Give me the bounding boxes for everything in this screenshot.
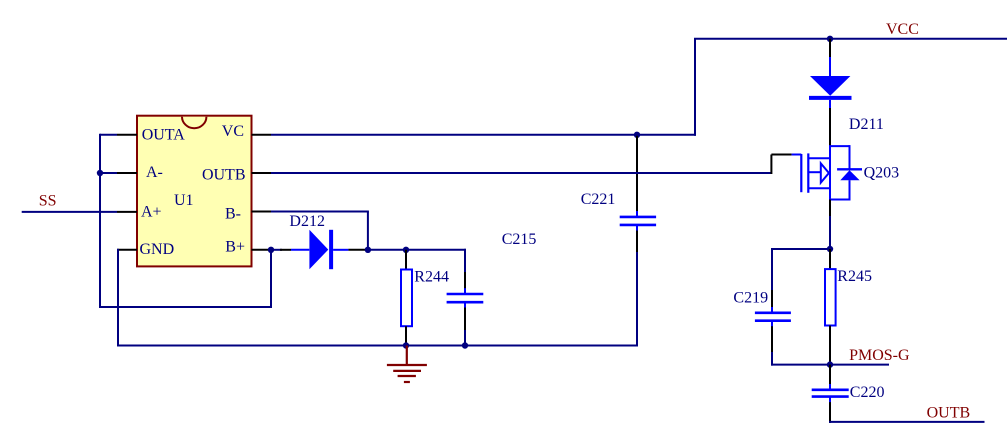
wire B+ to D212 xyxy=(271,249,282,251)
pin D212 cathode xyxy=(348,249,368,251)
pin C215 top xyxy=(464,272,466,289)
svg-text:R245: R245 xyxy=(837,268,872,285)
wire C215 top corner xyxy=(464,249,466,272)
pin B+ xyxy=(225,239,271,256)
svg-text:OUTB: OUTB xyxy=(202,167,246,184)
diode D211 xyxy=(809,57,852,108)
wire branch to C219 xyxy=(772,248,830,250)
svg-text:A+: A+ xyxy=(141,204,162,221)
wire SS to A+ xyxy=(22,211,117,213)
svg-text:SS: SS xyxy=(39,193,57,210)
svg-text:D211: D211 xyxy=(849,116,884,133)
svg-text:C220: C220 xyxy=(850,384,885,401)
wire OUTA vertical xyxy=(99,134,101,308)
pin B- xyxy=(225,206,271,223)
pin GND xyxy=(117,241,174,258)
wire B+ riser xyxy=(270,250,272,308)
wire VC to riser xyxy=(271,134,696,136)
svg-text:GND: GND xyxy=(140,241,175,258)
node PMOS-G junction xyxy=(827,361,833,367)
resistor R245 xyxy=(825,269,836,325)
capacitor C221 xyxy=(620,211,656,231)
svg-text:VCC: VCC xyxy=(886,21,919,38)
svg-text:B+: B+ xyxy=(225,239,245,256)
wire gate step up xyxy=(770,155,772,175)
pin C219 bottom xyxy=(771,326,773,352)
node VCC junction xyxy=(827,36,833,42)
wire OUTB to gate xyxy=(271,172,771,174)
wire C221 bottom xyxy=(636,252,638,347)
wire B- horizontal xyxy=(271,211,369,213)
pin OUTA xyxy=(117,127,185,144)
pin R245 top xyxy=(829,249,831,269)
pin R244 bottom xyxy=(405,326,407,345)
pin OUTB xyxy=(202,167,271,184)
pin R245 bottom xyxy=(829,326,831,365)
wire OUTB output xyxy=(829,421,985,423)
pin D211 cathode xyxy=(829,108,831,147)
svg-text:Q203: Q203 xyxy=(864,165,900,182)
wire ground rail xyxy=(117,345,637,347)
svg-text:C221: C221 xyxy=(581,191,616,208)
svg-text:A-: A- xyxy=(146,164,163,181)
wire drain to R245 xyxy=(829,216,831,249)
pin C215 bottom xyxy=(464,308,466,331)
node B+ junction xyxy=(268,247,274,253)
node R245 top junction xyxy=(827,246,833,252)
wire C215 bottom xyxy=(464,330,466,346)
pin C220 bottom xyxy=(829,402,831,423)
wire VCC riser xyxy=(694,39,696,136)
node R244 top junction xyxy=(403,247,409,253)
svg-text:D212: D212 xyxy=(289,213,325,230)
diode D212 xyxy=(291,230,348,269)
node C215 bottom junction xyxy=(462,342,468,348)
wire C219 bottom corner xyxy=(771,352,773,366)
pin R244 top xyxy=(405,250,407,269)
pin A- xyxy=(117,164,163,181)
svg-text:B-: B- xyxy=(225,206,241,223)
svg-text:C215: C215 xyxy=(502,231,537,248)
pin VC xyxy=(222,123,271,140)
wire VCC rail xyxy=(694,38,1007,40)
ground xyxy=(387,346,427,383)
pin D212 anode xyxy=(280,249,291,251)
pin C221 top xyxy=(636,136,638,212)
node R244 bottom junction xyxy=(403,342,409,348)
pin A+ xyxy=(117,204,162,221)
svg-text:OUTA: OUTA xyxy=(142,127,186,144)
wire PMOS-G xyxy=(771,364,889,366)
node D212 cathode junction xyxy=(365,247,371,253)
wire B- down to cathode xyxy=(367,212,369,250)
svg-text:PMOS-G: PMOS-G xyxy=(849,347,910,364)
node A- junction xyxy=(97,170,103,176)
node C221 top junction xyxy=(634,132,640,138)
pin Q203 drain bottom xyxy=(829,200,831,217)
svg-text:OUTB: OUTB xyxy=(927,405,971,422)
svg-text:C219: C219 xyxy=(733,290,768,307)
wire gate horizontal xyxy=(771,154,791,156)
wire cathode to C215 corner xyxy=(368,249,466,251)
wire A- stub xyxy=(100,172,117,174)
svg-text:R244: R244 xyxy=(414,269,449,286)
capacitor C220 xyxy=(812,384,849,402)
transistor Q203 xyxy=(792,145,862,200)
wire bottom horizontal to B+ riser xyxy=(99,306,271,308)
resistor R244 xyxy=(401,270,412,327)
pin D211 anode xyxy=(829,39,831,58)
pin C220 top xyxy=(829,365,831,385)
wire C219 top lead xyxy=(771,248,773,290)
capacitor C215 xyxy=(447,288,484,308)
pin C221 bottom xyxy=(636,231,638,253)
pin C219 top xyxy=(771,290,773,307)
svg-text:VC: VC xyxy=(222,123,244,140)
wire GND down xyxy=(117,249,119,347)
svg-text:U1: U1 xyxy=(174,192,194,209)
IC U1 body xyxy=(137,116,252,267)
capacitor C219 xyxy=(755,307,791,327)
wire OUTA stub xyxy=(100,134,117,136)
